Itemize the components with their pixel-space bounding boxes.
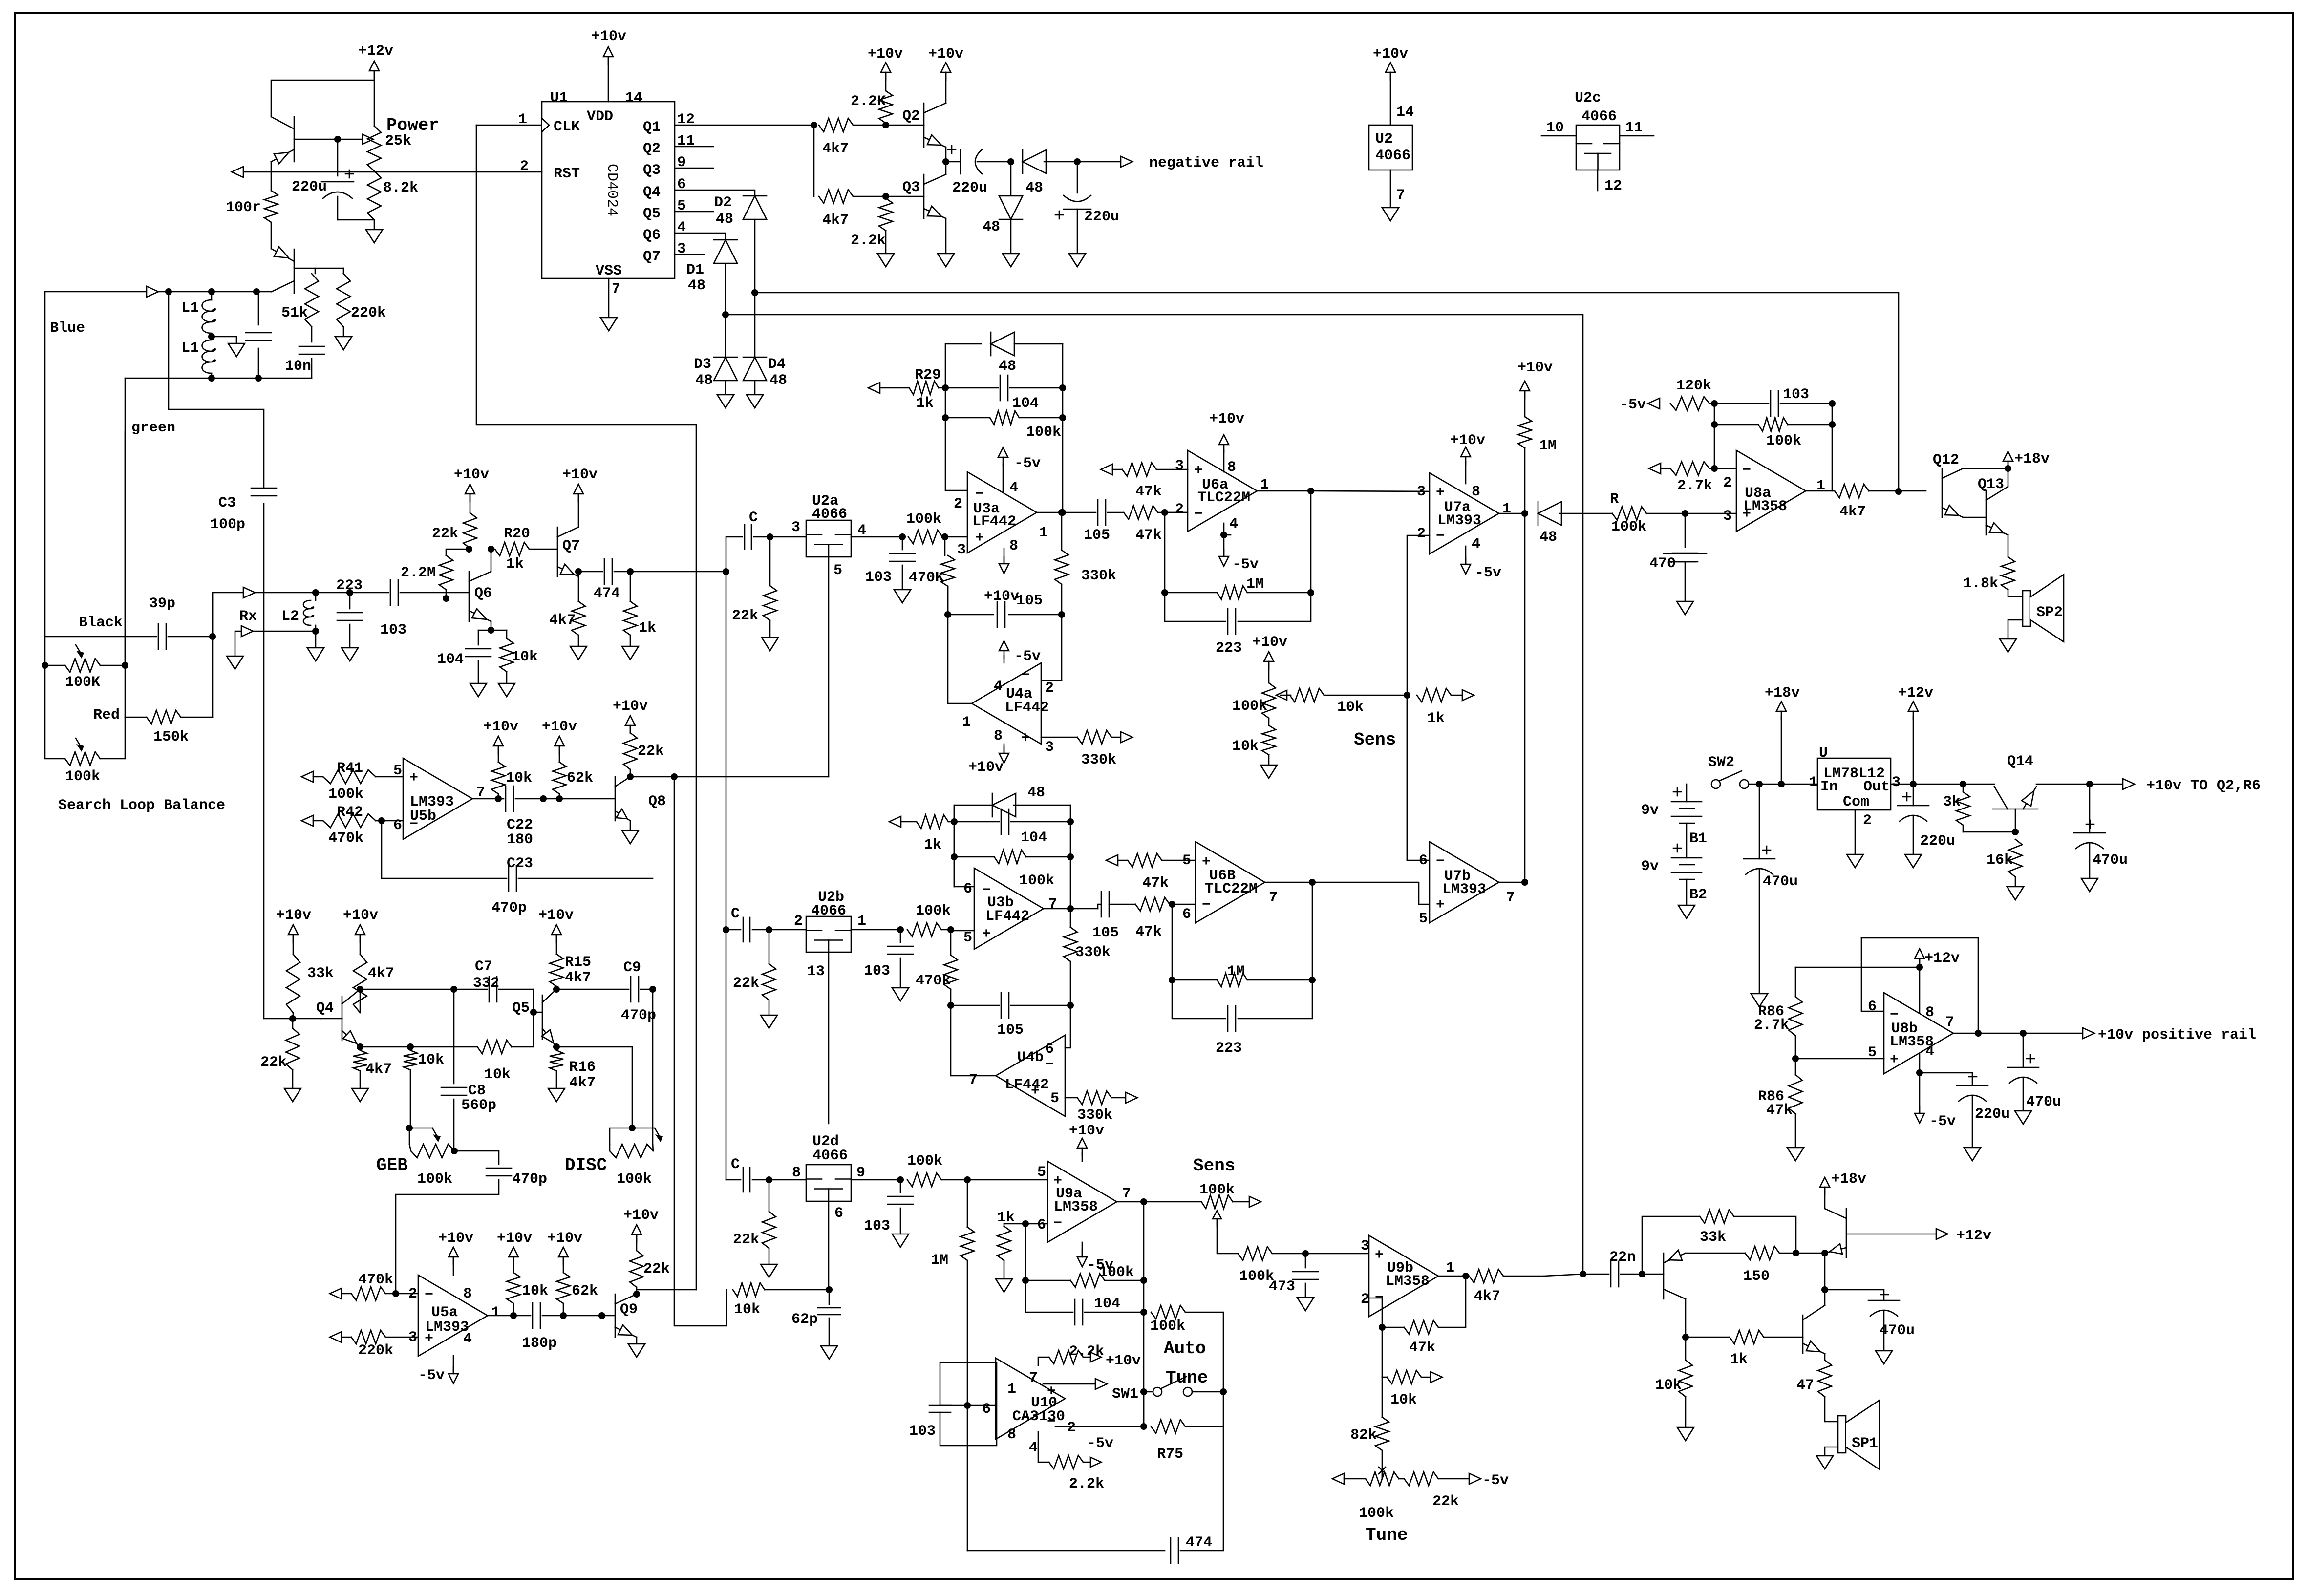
op-amp U4a LF442 <box>1061 615 1063 681</box>
svg-text:LM393: LM393 <box>1442 881 1486 898</box>
svg-text:4k7: 4k7 <box>549 612 576 629</box>
resistor 4k7 Q4 emitter <box>357 1043 363 1050</box>
svg-text:-5v: -5v <box>1014 455 1041 472</box>
svg-text:100k: 100k <box>1150 1318 1185 1335</box>
svg-text:Q6: Q6 <box>643 227 661 244</box>
capacitor C23 470p <box>382 821 507 878</box>
resistor 4k7 out <box>1469 1269 1503 1283</box>
resistor 22k pulldown U2d <box>769 1180 770 1212</box>
svg-text:4: 4 <box>1472 536 1480 553</box>
svg-text:U2: U2 <box>1375 131 1393 148</box>
svg-text:+: + <box>1436 485 1445 501</box>
svg-text:LM358: LM358 <box>1054 1199 1098 1215</box>
svg-text:−: − <box>1045 1057 1054 1073</box>
L2 ground <box>315 631 317 648</box>
wire Q6 pin to D1 <box>675 233 726 239</box>
resistor 470K <box>941 533 948 540</box>
svg-text:SP1: SP1 <box>1852 1435 1878 1452</box>
svg-text:+10v: +10v <box>591 28 626 45</box>
svg-text:1.8k: 1.8k <box>1963 575 1998 592</box>
svg-text:+: + <box>1436 897 1445 914</box>
svg-text:470k: 470k <box>358 1272 393 1288</box>
capacitor tank <box>258 292 259 325</box>
resistor 1k to arrow <box>1417 688 1451 702</box>
transistor T2 <box>1802 1315 1804 1353</box>
svg-text:100k: 100k <box>328 786 363 803</box>
svg-text:+10v: +10v <box>1517 360 1553 376</box>
wire bottom row <box>125 378 212 379</box>
op-amp U6a TLC22M <box>1188 450 1257 532</box>
svg-text:330k: 330k <box>1081 752 1116 768</box>
pot GEB 100k <box>409 1128 432 1129</box>
wire to C3 <box>169 292 264 488</box>
svg-text:6: 6 <box>1037 1217 1046 1234</box>
diode D4 48 <box>743 357 767 358</box>
svg-text:-5v: -5v <box>1482 1472 1509 1489</box>
op-amp U3b LF442 <box>950 930 952 931</box>
transistor Q power top <box>294 117 295 162</box>
svg-text:223: 223 <box>1216 640 1242 657</box>
resistor 47k <box>1135 897 1170 911</box>
svg-text:Sens: Sens <box>1354 730 1396 750</box>
transistor Q9 <box>563 1315 615 1317</box>
svg-text:6: 6 <box>1045 1041 1054 1058</box>
diode D2 48 <box>743 195 767 197</box>
svg-text:L1: L1 <box>181 300 199 317</box>
resistor 220k <box>337 274 350 327</box>
svg-text:LF442: LF442 <box>972 513 1016 530</box>
wire Q5 emitter to DISC <box>556 1047 632 1128</box>
svg-text:47k: 47k <box>1409 1340 1435 1356</box>
svg-text:100k: 100k <box>916 903 951 919</box>
wire W2 long net <box>726 315 1583 1274</box>
svg-text:6: 6 <box>393 817 402 834</box>
svg-text:1: 1 <box>491 1304 500 1321</box>
resistor 100k <box>1302 1250 1309 1257</box>
U8a output 4k7 <box>1806 490 1835 492</box>
svg-text:Q4: Q4 <box>643 184 661 201</box>
capacitor 104 feedback <box>945 387 998 389</box>
svg-text:14: 14 <box>625 90 642 106</box>
svg-text:474: 474 <box>594 585 620 602</box>
op-amp U4b LF442 <box>950 1005 952 1076</box>
svg-text:1: 1 <box>1039 525 1048 541</box>
U9a pin4 -5v <box>1082 1242 1083 1257</box>
regulator LM78L12 <box>1759 784 1817 785</box>
capacitor 220u <box>1920 1073 1972 1085</box>
diode 48 series <box>1022 150 1024 173</box>
capacitor 103 coupling <box>350 592 388 594</box>
svg-text:8: 8 <box>1925 1004 1934 1021</box>
svg-text:-5v: -5v <box>1014 648 1041 665</box>
svg-text:1: 1 <box>1446 1260 1454 1277</box>
capacitor 103 feedback <box>1714 403 1769 404</box>
svg-text:6: 6 <box>963 881 972 897</box>
svg-text:62k: 62k <box>567 770 593 787</box>
svg-text:-5v: -5v <box>1620 397 1646 413</box>
svg-text:2: 2 <box>1067 1420 1076 1436</box>
svg-text:+10v: +10v <box>1106 1353 1141 1369</box>
resistor 51k <box>305 274 319 327</box>
capacitor 470u rail <box>2023 1033 2024 1067</box>
svg-text:1: 1 <box>962 714 971 731</box>
+12v output wire <box>1846 1234 1936 1235</box>
svg-text:48: 48 <box>983 219 1000 235</box>
input 1k arrow <box>889 816 901 827</box>
capacitor 103 shunt <box>900 1180 901 1192</box>
svg-text:SW1: SW1 <box>1112 1386 1138 1403</box>
wire green <box>125 378 126 665</box>
svg-text:330k: 330k <box>1081 568 1116 584</box>
svg-text:+: + <box>982 926 991 943</box>
svg-text:474: 474 <box>1186 1534 1212 1551</box>
op-amp U7b LM393 <box>1430 842 1499 923</box>
svg-text:48: 48 <box>1025 180 1043 196</box>
svg-text:+10v: +10v <box>483 719 518 735</box>
wire Q7 out to C caps <box>630 571 726 573</box>
svg-text:+10v TO Q2,R6: +10v TO Q2,R6 <box>2146 778 2261 794</box>
diode 48 shunt <box>1010 162 1012 195</box>
svg-text:+12v: +12v <box>358 43 393 60</box>
svg-text:Sens: Sens <box>1193 1156 1235 1176</box>
svg-text:100k: 100k <box>907 1153 942 1170</box>
svg-text:VDD: VDD <box>587 108 613 125</box>
svg-text:104: 104 <box>437 651 464 668</box>
svg-text:2.2M: 2.2M <box>401 565 436 581</box>
svg-text:100K: 100K <box>65 674 100 691</box>
U4a pin8 +10v <box>1004 744 1005 753</box>
svg-text:+12v: +12v <box>1898 685 1933 702</box>
capacitor 220u out <box>1913 784 1914 806</box>
svg-text:104: 104 <box>1094 1296 1120 1312</box>
svg-text:CA3130: CA3130 <box>1012 1408 1065 1425</box>
svg-text:10n: 10n <box>285 358 311 375</box>
collector row <box>360 989 454 990</box>
svg-text:LM393: LM393 <box>1437 512 1481 529</box>
resistor 22k pulldown U2b <box>769 930 770 964</box>
out wire +12v <box>1891 784 1913 785</box>
svg-text:8.2k: 8.2k <box>383 180 418 196</box>
resistor 4k7 upper <box>819 118 853 132</box>
resistor 22k collector <box>466 546 472 553</box>
svg-text:180p: 180p <box>522 1335 557 1352</box>
op-amp U5b LM393 <box>403 758 472 839</box>
svg-text:13: 13 <box>807 963 825 980</box>
svg-text:Tune: Tune <box>1366 1525 1408 1545</box>
svg-text:100k: 100k <box>906 511 941 528</box>
resistor 82k <box>1382 1377 1383 1417</box>
svg-text:LF442: LF442 <box>1005 700 1049 716</box>
U6a pin4 -5v <box>1223 523 1225 535</box>
svg-text:4k7: 4k7 <box>365 1061 392 1078</box>
svg-text:470: 470 <box>1649 555 1676 572</box>
U9a pin8 +10v <box>1082 1153 1083 1161</box>
U3a pin8 +10v <box>1004 549 1005 564</box>
resistor 100k feedback <box>1711 421 1718 428</box>
svg-text:-5v: -5v <box>1232 556 1259 573</box>
transistor T3 output <box>1846 1209 1847 1257</box>
capacitor 470 <box>1685 513 1686 547</box>
op-amp U9a LM358 <box>1047 1161 1117 1242</box>
svg-text:C3: C3 <box>218 495 236 511</box>
svg-text:+10v: +10v <box>497 1230 532 1247</box>
svg-text:+10v: +10v <box>1450 432 1485 449</box>
emitter row + 10k <box>360 1046 410 1048</box>
svg-text:16k: 16k <box>1987 852 2013 869</box>
svg-text:104: 104 <box>1012 395 1039 412</box>
svg-text:4: 4 <box>1029 1440 1038 1456</box>
svg-text:Black: Black <box>79 615 123 631</box>
U7b output <box>1499 882 1525 883</box>
resistor 10k lower <box>1268 718 1270 725</box>
output U3a <box>1037 512 1062 513</box>
resistor R75 <box>1140 1423 1147 1430</box>
resistor 2.2M <box>443 595 449 602</box>
op-amp U9b LM358 <box>1305 1253 1369 1255</box>
svg-text:C8: C8 <box>468 1083 486 1099</box>
capacitor 470u <box>1825 1290 1884 1300</box>
svg-text:TLC22M: TLC22M <box>1197 489 1250 506</box>
svg-text:8: 8 <box>1472 484 1480 500</box>
input 47k pin5 <box>1106 855 1118 866</box>
capacitor 470p GEB <box>454 1151 499 1164</box>
svg-text:1: 1 <box>1809 774 1818 791</box>
svg-text:2: 2 <box>1417 526 1426 542</box>
svg-text:U: U <box>1819 745 1828 762</box>
svg-text:22k: 22k <box>638 743 664 760</box>
battery B1 <box>1686 784 1688 802</box>
svg-text:2.2k: 2.2k <box>851 233 886 249</box>
svg-text:D1: D1 <box>686 262 704 278</box>
input 220k <box>330 1332 342 1342</box>
svg-text:25k: 25k <box>385 133 411 149</box>
capacitor 10n <box>311 327 313 342</box>
negative rail arrow <box>1077 161 1121 163</box>
svg-text:C9: C9 <box>623 959 641 976</box>
wire R75 junction <box>1143 1392 1145 1426</box>
svg-text:1k: 1k <box>924 837 941 853</box>
resistor 8.2k <box>367 171 381 220</box>
svg-text:100k: 100k <box>1766 433 1801 449</box>
svg-text:2.2k: 2.2k <box>1069 1476 1104 1492</box>
svg-text:−: − <box>1047 1414 1056 1430</box>
capacitor 39p <box>158 624 159 649</box>
pin6 wire <box>1022 1220 1029 1227</box>
svg-text:22k: 22k <box>732 608 758 624</box>
svg-text:4k7: 4k7 <box>565 970 591 986</box>
loop top <box>1861 938 1978 1033</box>
svg-text:220k: 220k <box>358 1342 393 1359</box>
svg-text:C: C <box>731 906 740 922</box>
U8b output <box>1953 1033 1978 1034</box>
svg-text:560p: 560p <box>461 1097 496 1114</box>
pot 100k lower <box>45 665 65 759</box>
svg-text:22k: 22k <box>260 1054 287 1071</box>
transistor T1 pnp <box>1642 1274 1664 1275</box>
diode D3 48 <box>714 357 737 358</box>
svg-text:51k: 51k <box>281 305 308 321</box>
U6a pin2 input net <box>1165 512 1188 513</box>
resistor 100k to SW1 <box>1151 1305 1185 1319</box>
svg-text:223: 223 <box>1216 1040 1242 1057</box>
svg-text:10k: 10k <box>1337 699 1364 716</box>
svg-text:C22: C22 <box>507 817 533 833</box>
resistor 2.2k lower <box>879 198 893 231</box>
svg-text:+10v: +10v <box>1069 1123 1104 1139</box>
svg-text:100k: 100k <box>1232 698 1267 715</box>
transistor Q7 <box>557 527 558 576</box>
svg-text:470u: 470u <box>2093 852 2128 869</box>
resistor 330k <box>1070 909 1071 927</box>
svg-text:5: 5 <box>1419 911 1428 927</box>
svg-text:22k: 22k <box>733 1232 759 1248</box>
svg-text:+18v: +18v <box>2014 451 2050 468</box>
svg-text:-5v: -5v <box>1929 1113 1956 1130</box>
svg-text:22k: 22k <box>643 1261 670 1277</box>
svg-text:Q13: Q13 <box>1978 476 2004 493</box>
transistor Q power bottom <box>294 249 295 293</box>
svg-text:Q2: Q2 <box>643 141 661 157</box>
svg-text:62k: 62k <box>572 1283 598 1299</box>
svg-text:+12v: +12v <box>1956 1228 1991 1244</box>
svg-text:Out: Out <box>1863 779 1890 795</box>
svg-text:B1: B1 <box>1689 830 1707 847</box>
+18v arrow <box>1778 781 1785 787</box>
U3a pin2 wire <box>945 418 967 490</box>
U4b 330k out <box>1065 1097 1077 1099</box>
svg-text:33k: 33k <box>1700 1229 1726 1246</box>
svg-text:2: 2 <box>794 913 803 930</box>
resistor 100k feedback <box>942 414 949 421</box>
resistor R29 1k <box>868 383 880 393</box>
capacitor 220u shunt <box>1077 162 1078 193</box>
svg-text:100k: 100k <box>417 1171 452 1188</box>
svg-text:6: 6 <box>1419 852 1428 869</box>
input R41 100k <box>301 771 313 782</box>
svg-text:10k: 10k <box>734 1301 760 1318</box>
svg-text:+: + <box>1031 1083 1040 1100</box>
resistor 4k7 lower <box>819 190 853 203</box>
+12v arrow U8b <box>1915 949 1924 958</box>
svg-text:2.7k: 2.7k <box>1754 1017 1789 1034</box>
op-amp U6B TLC22M <box>1196 842 1265 923</box>
svg-text:Q8: Q8 <box>648 793 666 810</box>
resistor 470k below pin5 <box>950 930 952 955</box>
svg-text:4k7: 4k7 <box>1474 1288 1500 1305</box>
svg-text:330k: 330k <box>1077 1107 1112 1124</box>
svg-text:+: + <box>1890 1052 1899 1068</box>
U5a pin8 +10v <box>453 1257 454 1275</box>
svg-text:+10v: +10v <box>1373 46 1408 63</box>
svg-text:TLC22M: TLC22M <box>1205 881 1258 897</box>
svg-text:39p: 39p <box>149 596 175 612</box>
U7a output <box>1499 513 1525 514</box>
svg-text:5: 5 <box>1037 1164 1046 1181</box>
svg-text:SP2: SP2 <box>2036 604 2063 621</box>
svg-text:+10v: +10v <box>868 46 903 63</box>
wire blue row <box>45 291 147 293</box>
svg-text:220k: 220k <box>351 305 386 321</box>
svg-text:U5a: U5a <box>431 1304 458 1321</box>
svg-text:48: 48 <box>1539 529 1557 546</box>
svg-text:2.7k: 2.7k <box>1677 478 1712 494</box>
feedback 1M <box>1164 512 1166 593</box>
svg-text:100k: 100k <box>1359 1505 1394 1522</box>
svg-text:R20: R20 <box>504 526 530 542</box>
svg-text:7: 7 <box>612 281 620 298</box>
svg-text:180: 180 <box>507 831 533 848</box>
battery B2 <box>1673 848 1681 849</box>
wire pin9 <box>851 1179 900 1181</box>
svg-text:6: 6 <box>1868 999 1877 1015</box>
svg-text:100k: 100k <box>1099 1264 1134 1281</box>
svg-text:47k: 47k <box>1135 924 1162 940</box>
U3b output <box>1044 908 1070 910</box>
feedback 1M <box>1172 904 1173 980</box>
svg-text:+10v: +10v <box>276 907 311 924</box>
svg-text:9v: 9v <box>1641 802 1659 819</box>
svg-text:LF442: LF442 <box>1005 1077 1049 1093</box>
svg-text:−: − <box>1202 897 1211 914</box>
base jog to 51k/220k <box>294 268 315 274</box>
op-amp U3a LF442 <box>967 472 1037 553</box>
svg-text:B2: B2 <box>1689 887 1707 903</box>
capacitor 220u <box>337 139 339 176</box>
svg-text:C23: C23 <box>507 855 533 872</box>
svg-text:1: 1 <box>1502 501 1511 517</box>
svg-text:Q9: Q9 <box>620 1301 638 1318</box>
U2b pin13 control <box>828 952 830 1124</box>
+18v arrow <box>1820 1177 1830 1187</box>
svg-text:3: 3 <box>1892 774 1901 791</box>
svg-text:3: 3 <box>957 542 966 558</box>
op-amp U7a LM393 <box>1430 473 1499 554</box>
svg-text:7: 7 <box>1506 890 1515 906</box>
svg-text:10: 10 <box>1546 120 1564 136</box>
capacitor 473 <box>1305 1254 1306 1268</box>
svg-text:6: 6 <box>1182 906 1191 923</box>
feedback rectangle <box>1795 967 1920 968</box>
svg-text:100r: 100r <box>226 199 261 216</box>
resistor 1k <box>630 572 631 601</box>
svg-text:+10v: +10v <box>562 467 598 483</box>
svg-text:Rx: Rx <box>239 608 257 625</box>
svg-text:82k: 82k <box>1350 1427 1377 1444</box>
svg-text:3: 3 <box>1723 508 1732 525</box>
input 470k <box>330 1288 342 1299</box>
svg-text:1: 1 <box>1816 478 1825 494</box>
op-amp U8a LM358 <box>1736 450 1806 532</box>
svg-text:8: 8 <box>994 728 1003 745</box>
svg-text:LF442: LF442 <box>985 908 1029 925</box>
svg-text:C: C <box>749 510 758 526</box>
svg-text:10k: 10k <box>512 649 538 665</box>
resistor 10k wiper <box>1290 688 1324 702</box>
U3a pin4 -5v <box>1003 464 1004 492</box>
svg-text:7: 7 <box>1269 890 1278 906</box>
U9b output <box>1438 1276 1466 1277</box>
svg-text:103: 103 <box>864 1218 890 1234</box>
svg-text:100k: 100k <box>1019 872 1054 889</box>
svg-text:Q12: Q12 <box>1933 452 1959 468</box>
svg-text:GEB: GEB <box>376 1155 408 1175</box>
svg-text:R: R <box>1610 491 1619 508</box>
svg-text:8: 8 <box>1009 538 1018 554</box>
pin stubs <box>675 146 713 148</box>
svg-text:470K: 470K <box>909 570 944 586</box>
pot 100K upper <box>45 292 65 665</box>
svg-text:3: 3 <box>1175 458 1184 474</box>
